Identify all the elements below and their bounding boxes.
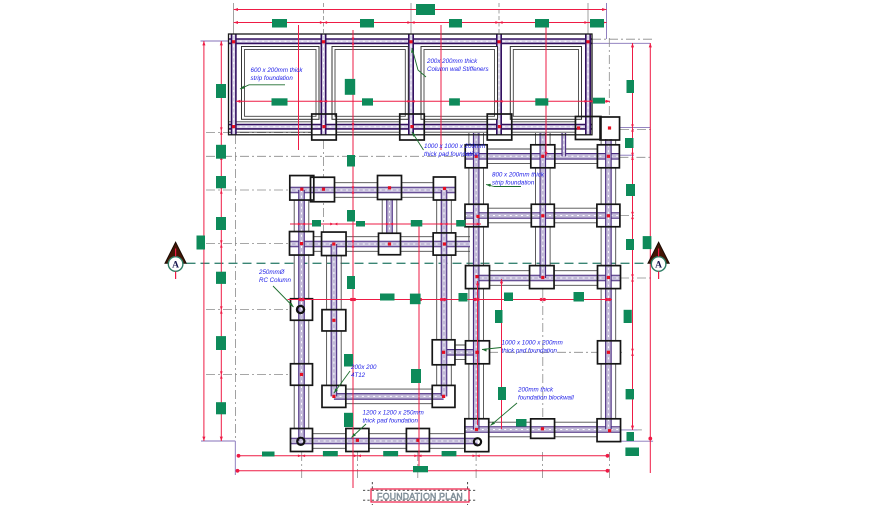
svg-text:1000 x 1000 x 200mm: 1000 x 1000 x 200mm [424, 143, 485, 150]
svg-text:thick pad foundation: thick pad foundation [502, 348, 558, 355]
svg-text:thick pad foundation: thick pad foundation [424, 151, 480, 158]
svg-text:strip foundation: strip foundation [492, 180, 535, 187]
svg-text:thick pad foundation: thick pad foundation [363, 418, 419, 425]
svg-text:strip foundation: strip foundation [251, 75, 294, 82]
svg-text:200x 200: 200x 200 [350, 364, 377, 371]
svg-text:1200 x 1200 x 250mm: 1200 x 1200 x 250mm [363, 410, 424, 417]
svg-text:250mmØ: 250mmØ [258, 269, 286, 276]
svg-text:FOUNDATION PLAN: FOUNDATION PLAN [377, 491, 463, 501]
svg-text:200mm thick: 200mm thick [517, 387, 554, 394]
svg-text:RC Column: RC Column [259, 277, 292, 284]
svg-text:A: A [172, 260, 179, 270]
svg-text:Column wall Stiffeners: Column wall Stiffeners [427, 66, 489, 73]
svg-text:200x 200mm thick: 200x 200mm thick [426, 58, 478, 65]
svg-text:4T12: 4T12 [351, 372, 366, 379]
svg-text:600 x 200mm thick: 600 x 200mm thick [251, 67, 304, 74]
svg-text:1000 x 1000 x 200mm: 1000 x 1000 x 200mm [502, 340, 563, 347]
svg-text:A: A [655, 260, 662, 270]
svg-text:foundation blockwall: foundation blockwall [518, 395, 574, 402]
svg-text:800 x 200mm thick: 800 x 200mm thick [492, 172, 545, 179]
